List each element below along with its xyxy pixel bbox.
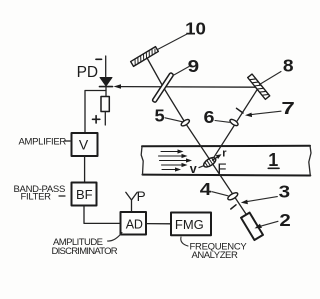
wire: resistor bottom lead xyxy=(104,112,106,126)
leader arrow to label 2 xyxy=(255,221,279,228)
beam: horizontal beam from mirror 8 / splitter 9 to photodiode with arrowhead xyxy=(114,84,259,89)
svg-text:PD: PD xyxy=(77,64,99,81)
leader arrow to label 7 xyxy=(245,111,281,117)
lens 4 xyxy=(227,191,239,201)
svg-text:AMPLIFIER: AMPLIFIER xyxy=(19,136,67,147)
svg-text:10: 10 xyxy=(185,18,206,38)
label BAND-PASS FILTER xyxy=(14,184,66,203)
svg-text:4: 4 xyxy=(200,179,212,199)
svg-text:2: 2 xyxy=(279,210,291,230)
terminal + (positive bias) xyxy=(93,116,100,123)
svg-text:AD: AD xyxy=(126,217,143,231)
svg-text:FILTER: FILTER xyxy=(21,192,52,203)
svg-text:6: 6 xyxy=(204,107,215,127)
terminal - (negative bias) xyxy=(96,58,102,60)
leader line to label 10 xyxy=(158,34,188,50)
svg-text:ANALYZER: ANALYZER xyxy=(192,250,238,261)
svg-text:FMG: FMG xyxy=(175,217,204,232)
flow velocity profile arrows xyxy=(159,149,193,171)
wire: short line from v toward focal volume F xyxy=(199,162,212,167)
leader line to label 4 xyxy=(212,192,228,196)
frequency analyzer box FMG (U4) xyxy=(171,213,211,236)
svg-text:8: 8 xyxy=(283,56,294,76)
polarizer 3 (tick near beam) xyxy=(231,205,236,209)
resistor (load) xyxy=(101,97,109,112)
band-pass filter box BF (U2) xyxy=(72,183,97,206)
label AMPLIFIER xyxy=(19,136,71,147)
probe P (test point) xyxy=(126,189,146,212)
svg-text:BF: BF xyxy=(76,187,93,202)
svg-text:9: 9 xyxy=(188,56,200,76)
focal volume F (hatched ellipse at beam crossing) xyxy=(202,156,217,169)
svg-text:v: v xyxy=(190,162,197,176)
wire: V to BF xyxy=(84,156,86,183)
wire: bias top lead above PD xyxy=(105,56,107,78)
lens 5 xyxy=(180,118,190,127)
svg-text:5: 5 xyxy=(155,106,165,126)
amplitude discriminator box AD (U3) xyxy=(121,212,147,235)
leader line to label 9 xyxy=(173,67,189,76)
leader line to label 5 xyxy=(165,118,182,122)
wire: AD to FMG xyxy=(146,223,171,225)
lens 6 xyxy=(229,118,239,127)
beam: reference beam from mirror 8 through 7 and lens 6 to F xyxy=(211,88,259,162)
laser 2 (body) xyxy=(241,213,263,240)
leader line to label 6 xyxy=(215,121,230,123)
label AMPLITUDE DISCRIMINATOR with leader xyxy=(52,233,123,257)
svg-text:DISCRIMINATOR: DISCRIMINATOR xyxy=(52,246,118,257)
svg-text:r: r xyxy=(222,148,227,160)
svg-text:7: 7 xyxy=(281,98,295,118)
wire: branch to amplifier xyxy=(85,91,106,134)
amplifier box V (U1) xyxy=(72,133,98,156)
mirror 8 (hatched) xyxy=(248,74,270,99)
wire: BF to AD xyxy=(84,206,121,224)
mirror 9 (beam splitter plate) xyxy=(152,72,174,102)
flow channel 1 (test section) xyxy=(141,146,311,176)
mirror 10 (hatched) xyxy=(131,47,159,67)
attenuator 7 (tick on reference beam) xyxy=(237,108,244,113)
svg-text:3: 3 xyxy=(279,182,291,202)
wire: PD cathode down and branch junction xyxy=(105,87,107,97)
arrow r (scattering direction) xyxy=(213,148,228,161)
svg-text:V: V xyxy=(79,137,89,153)
svg-text:P: P xyxy=(137,189,146,204)
label FREQUENCY ANALYZER with leader xyxy=(181,237,248,261)
beam: laser axis from laser 2 through 3, lens 4, F, lens 5 to mirror 9 and mirror 10 xyxy=(147,57,247,214)
photodiode PD (filled triangle + cathode bar) xyxy=(100,78,113,87)
svg-text:1: 1 xyxy=(268,150,278,170)
svg-text:F: F xyxy=(217,160,226,177)
leader line to label 8 xyxy=(260,72,282,85)
leader arrow to label 3 xyxy=(241,197,277,205)
label 1 (channel) with underline xyxy=(268,150,279,170)
